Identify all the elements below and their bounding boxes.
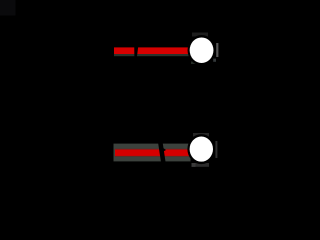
wire net2 blend upper (dark red transition) [115, 149, 191, 150]
lamp L2 stub top (faint gray stub above bottom lamp) [193, 133, 209, 137]
node A (faint selection square, top-left) [0, 0, 16, 16]
switch S1 (open-switch slash breaking top wire) [134, 45, 138, 58]
wire net1 (top red wire, x114-190, y47.4-54) [114, 47, 190, 54]
lamp L1 lower-right stub blob [213, 59, 216, 62]
lamp L1 (top lamp white disc) [190, 37, 214, 63]
lamp L1 stub top (faint gray wire stub above top lamp) [192, 33, 208, 37]
lamp L2 (bottom lamp white disc) [190, 137, 213, 162]
lamp L2 stub bottom (faint gray stub below bottom lamp) [192, 163, 210, 167]
wire net2 blend lower (dark red transition) [115, 156, 191, 157]
switch S2 (open-switch slash breaking bottom wire) [158, 140, 166, 164]
lamp L1 ring (black ring of top lamp) [188, 35, 216, 65]
lamp L1 pin (gray terminal tick right of top lamp) [216, 43, 218, 57]
wire net2 band (bottom wire gray band) [114, 144, 191, 162]
lamp L1 stub bottom (faint gray stub below top lamp) [191, 62, 196, 65]
wire net1 shadow (top wire gray underline) [114, 54, 190, 56]
lamp L2 pin (gray terminal tick right of bottom lamp) [215, 141, 217, 158]
wire net2 (bottom red wire, x115-190, y149.5-155.9) [115, 150, 191, 156]
lamp L2 ring (black ring of bottom lamp) [187, 134, 215, 164]
